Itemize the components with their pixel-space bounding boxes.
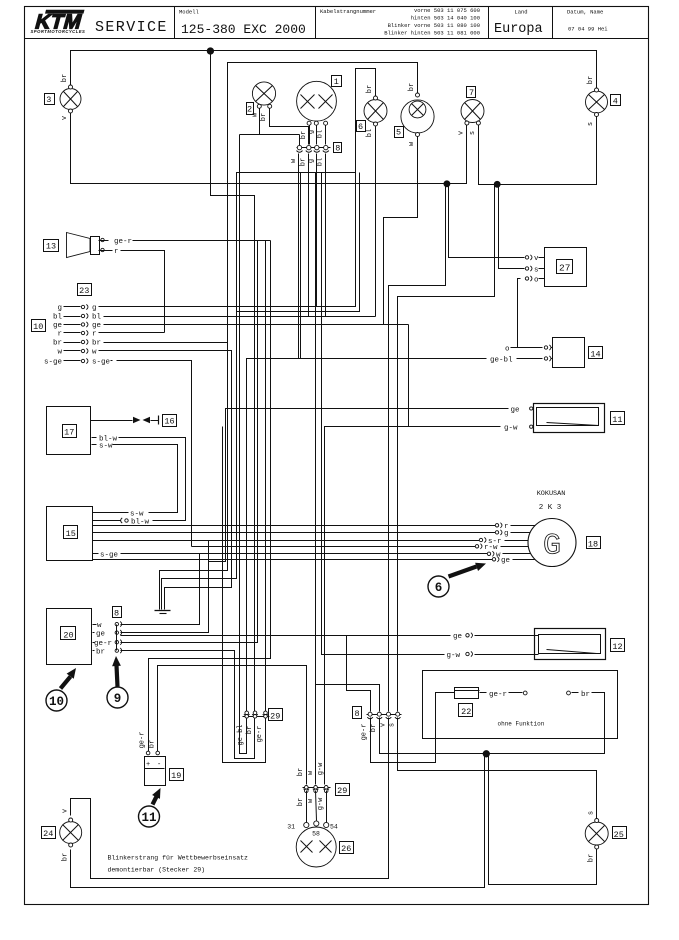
wire bl below headlight connector	[325, 154, 327, 317]
wire r: horn to connector 10 row r	[121, 251, 165, 333]
svg-text:bl: bl	[317, 158, 325, 166]
wire s-w: unit 17 to unit 15	[113, 445, 178, 513]
wire br: lamp E5 via ground	[160, 63, 418, 610]
lamp E26 tail brake light	[296, 821, 336, 867]
lamp E6 box 6	[357, 121, 366, 132]
generator box 18	[587, 537, 601, 549]
unit 27 box label	[557, 260, 573, 274]
svg-text:ge-r: ge-r	[489, 691, 507, 699]
svg-text:29: 29	[270, 712, 280, 722]
svg-text:ge-bl: ge-bl	[237, 724, 245, 745]
svg-text:s-w: s-w	[130, 510, 144, 518]
svg-text:v: v	[534, 255, 539, 263]
header table	[25, 7, 649, 39]
svg-text:br: br	[53, 340, 62, 348]
svg-text:ge-r: ge-r	[94, 640, 112, 648]
svg-text:4: 4	[613, 97, 618, 107]
horn box 13	[44, 240, 59, 252]
svg-text:13: 13	[46, 242, 56, 252]
svg-text:w: w	[92, 349, 97, 357]
svg-text:br: br	[366, 85, 374, 93]
generator G KOKUSAN	[528, 519, 576, 567]
wire br cross link	[162, 173, 356, 610]
wire g-w drop to switch 12	[322, 173, 445, 655]
svg-text:r: r	[114, 248, 119, 256]
wire br: connector 10 row br	[111, 342, 228, 344]
wire br: connector 8 down to box 22	[380, 693, 605, 754]
wire g below headlight connector	[316, 154, 318, 307]
svg-text:31: 31	[287, 824, 295, 831]
wire ge: switch 11 feed	[209, 409, 509, 562]
wire br drop to connector 29 left pin br	[211, 51, 255, 712]
svg-text:Modell: Modell	[179, 9, 199, 16]
wire ge: switch 20 row ge	[121, 541, 209, 633]
wire br: connector 8 up	[316, 685, 380, 712]
wire ge-r fuse	[480, 691, 528, 699]
switch 11 inner box	[537, 408, 599, 426]
wire r: connector 10 row r	[111, 332, 165, 334]
svg-text:8: 8	[114, 609, 119, 619]
unit 15 box label	[64, 526, 78, 539]
circled 6 callout	[428, 563, 486, 597]
svg-text:10: 10	[33, 322, 43, 332]
circled 11 callout	[139, 788, 161, 827]
svg-text:1: 1	[334, 77, 339, 87]
circled 9 callout	[107, 656, 128, 708]
switch 20 pin br	[93, 648, 122, 656]
svg-text:+: +	[146, 761, 150, 769]
wire v: node A to unit 27 pin v	[449, 184, 525, 258]
switch 12 lever	[547, 650, 597, 654]
wire o: unit 27 to unit 14	[518, 279, 543, 348]
lamp E7 indicator	[461, 100, 484, 126]
switch 11 pin ge	[511, 406, 533, 414]
wire bl: connector 10 row bl	[111, 316, 376, 318]
connector 29 box 29 rear	[336, 784, 350, 796]
svg-text:Europa: Europa	[494, 22, 543, 37]
lamp E1 box 1	[332, 76, 342, 87]
generator pin s-r	[479, 537, 528, 545]
unit 27 pin v	[525, 255, 544, 263]
node A (v)	[444, 181, 450, 187]
svg-text:g-w: g-w	[317, 797, 325, 810]
connector 29 box 29 front	[269, 709, 283, 721]
switch 12 pin g-w	[447, 651, 539, 659]
wire s: lamp E4 to node B	[498, 117, 597, 185]
horn pin ge-r	[99, 238, 109, 241]
svg-text:v: v	[61, 116, 69, 120]
switch 12 pin ge	[453, 633, 539, 641]
svg-text:o: o	[505, 345, 510, 353]
connector 29 pins front	[243, 711, 270, 718]
wire ge drop x408	[408, 325, 410, 427]
wire s-ge: connector 10 to unit 15	[117, 361, 192, 547]
svg-text:24: 24	[43, 829, 53, 839]
unit 14 box	[553, 338, 585, 368]
svg-text:8: 8	[354, 709, 359, 719]
svg-text:br: br	[587, 76, 595, 84]
svg-text:ge: ge	[96, 630, 105, 638]
svg-text:g-w: g-w	[447, 652, 461, 660]
svg-text:Datum, Name: Datum, Name	[567, 9, 603, 16]
svg-text:54: 54	[330, 824, 338, 831]
svg-text:br: br	[408, 83, 416, 91]
wire g: lamp E1 pin	[316, 125, 318, 145]
svg-text:ge: ge	[453, 633, 462, 641]
wire w to headlight connector	[299, 135, 301, 147]
label s-ge unit 15	[93, 552, 119, 560]
svg-text:18: 18	[588, 540, 598, 550]
svg-text:w: w	[57, 349, 62, 357]
lamp E24 box 24	[42, 827, 56, 839]
wire ge-bl: unit 14 to connector 29 pin ge-bl	[517, 358, 543, 360]
wire br: lamp E24 to node br rear	[71, 754, 485, 888]
wire bl-w: unit 17 to unit 15	[119, 438, 186, 521]
svg-text:bl: bl	[92, 314, 102, 322]
svg-text:15: 15	[66, 529, 76, 539]
spark plug 16 lead	[91, 416, 159, 425]
wire br: lamp E2 to headlight connector	[270, 109, 309, 145]
svg-text:58: 58	[312, 831, 320, 838]
svg-text:s: s	[534, 266, 539, 274]
wire r-w: generator row r-w	[192, 546, 477, 548]
wire br: lamp E6 down	[271, 69, 376, 307]
svg-text:Blinker hinten 503 11 081 000: Blinker hinten 503 11 081 000	[384, 30, 480, 37]
lamp E5 tail light	[401, 93, 434, 137]
box 22 outline	[423, 671, 618, 739]
wire w: long drop to rear connector 29	[315, 173, 317, 785]
headlight connector 8 pins	[297, 145, 331, 152]
wire ge-r: connector 8 down to fuse	[371, 693, 455, 763]
wire bl: lamp E1 pin	[325, 125, 327, 145]
svg-text:20: 20	[63, 631, 73, 641]
circled 10 callout	[46, 668, 76, 711]
battery 19	[145, 751, 166, 785]
wire w: generator row w	[121, 553, 489, 555]
wire ge: generator row ge	[93, 559, 495, 561]
wire ge-r: switch 20 up to horn row	[121, 241, 258, 643]
svg-text:2: 2	[247, 105, 252, 115]
svg-text:o: o	[534, 276, 539, 284]
svg-text:g: g	[307, 130, 315, 134]
svg-text:22: 22	[461, 707, 471, 717]
unit 17 box label	[63, 425, 77, 438]
svg-text:29: 29	[337, 786, 347, 796]
switch 20 box	[47, 609, 92, 665]
wire w: lamp E5 tail	[384, 135, 418, 325]
svg-text:g: g	[92, 305, 97, 313]
svg-text:s: s	[469, 131, 477, 135]
svg-text:s-w: s-w	[99, 442, 113, 450]
lamp E24 front indicator	[60, 818, 82, 847]
unit 15 box	[47, 507, 93, 561]
generator pin w	[487, 551, 530, 559]
svg-text:r: r	[92, 331, 97, 339]
node B (s)	[494, 181, 500, 187]
lamp E25 rear indicator	[585, 819, 608, 850]
svg-text:br: br	[92, 340, 101, 348]
wire br: battery minus to tail lamp ground	[158, 666, 307, 785]
wire br below headlight connector	[308, 154, 310, 317]
svg-text:w: w	[97, 622, 102, 630]
svg-text:br: br	[370, 724, 378, 732]
lamp E1 headlight	[297, 81, 337, 125]
wire s-w stub unit 15	[93, 512, 129, 514]
svg-text:g-w: g-w	[504, 425, 518, 433]
svg-text:br: br	[297, 768, 305, 776]
label bl-w unit 15	[121, 518, 150, 526]
svg-text:ge-r: ge-r	[256, 726, 264, 743]
svg-text:br: br	[260, 113, 268, 121]
svg-text:8: 8	[335, 144, 340, 154]
svg-text:23: 23	[79, 286, 89, 296]
svg-text:ge: ge	[511, 406, 520, 414]
fuse 22	[455, 688, 480, 699]
svg-text:12: 12	[612, 642, 622, 652]
svg-text:KOKUSAN: KOKUSAN	[537, 490, 566, 498]
svg-text:r: r	[57, 331, 62, 339]
wire ge-r: battery feed	[149, 241, 271, 752]
wire w drop to rear	[240, 135, 247, 754]
svg-text:br: br	[246, 726, 254, 734]
wire v: lamp E7 v-pin to node A	[447, 125, 467, 184]
wire s: node B down to connector 8 pin s	[398, 185, 495, 712]
wire ge-r: horn row	[133, 240, 271, 242]
wire w to lamp 26 pin 58	[316, 791, 317, 821]
lamp E26 box 26	[340, 842, 354, 854]
wire w: switch 20 row w	[121, 554, 200, 625]
lamp E2 box 2	[247, 103, 254, 115]
wire br: lamp E1 pin	[309, 125, 311, 145]
horn pin r	[99, 248, 113, 251]
spark plug box 16	[163, 415, 177, 427]
connector 29 pins rear	[303, 786, 331, 793]
switch 12 inner box	[539, 635, 601, 654]
switch 20 pin w	[93, 622, 122, 630]
switch 20 pin ge	[93, 630, 122, 638]
svg-text:27: 27	[559, 263, 570, 274]
switch 11 lever	[547, 423, 599, 426]
svg-text:ge: ge	[92, 322, 101, 330]
svg-text:ge-r: ge-r	[139, 732, 147, 749]
wire br top bus: lamp E3 to lamp E4	[71, 51, 597, 89]
ground	[155, 611, 171, 614]
wire ge-r: connector 29 pin ge-r loop	[223, 427, 266, 763]
svg-text:v: v	[62, 809, 70, 813]
wire s: node B to unit 27 pin s	[499, 185, 525, 269]
lamp E6 indicator	[364, 96, 387, 126]
svg-text:ge: ge	[53, 322, 62, 330]
svg-text:Blinker vorne 503 11 080 100: Blinker vorne 503 11 080 100	[388, 22, 480, 29]
svg-text:11: 11	[612, 415, 622, 425]
svg-text:br: br	[588, 854, 596, 862]
svg-text:5: 5	[396, 128, 401, 138]
svg-text:br: br	[61, 74, 69, 82]
svg-text:SPORTMOTORCYCLES: SPORTMOTORCYCLES	[31, 29, 86, 34]
switch 12 box label	[611, 639, 625, 652]
svg-text:11: 11	[141, 811, 156, 825]
svg-text:br: br	[149, 740, 157, 748]
svg-text:7: 7	[469, 88, 474, 98]
wire w below headlight connector	[298, 154, 300, 359]
unit 27 box	[545, 248, 587, 287]
switch 11 box label	[611, 412, 625, 425]
unit 14 box label	[589, 347, 603, 359]
svg-text:Land: Land	[514, 9, 527, 16]
svg-text:6: 6	[358, 122, 363, 132]
connector 8 box 8	[353, 707, 362, 719]
svg-text:s: s	[588, 811, 596, 815]
switch 11 outer box	[534, 404, 605, 433]
wire ge-r: connector 8 up to unit 12 feed	[347, 636, 371, 712]
svg-text:br: br	[297, 798, 305, 806]
svg-text:br: br	[62, 853, 70, 861]
svg-text:14: 14	[590, 350, 600, 360]
svg-text:ge-r: ge-r	[361, 724, 369, 741]
svg-text:g-w: g-w	[317, 762, 325, 775]
svg-text:ge-bl: ge-bl	[490, 356, 513, 364]
KTM logo	[33, 11, 85, 34]
wire br box 22	[567, 691, 605, 699]
svg-text:s: s	[389, 723, 397, 727]
svg-text:3: 3	[46, 95, 51, 105]
horn 13	[67, 233, 100, 258]
wire s: connector 8 down to lamp E25	[398, 718, 597, 819]
wire br to lamp 26 pin 31	[306, 791, 308, 823]
wire br second drop	[237, 173, 360, 312]
unit 14 pin ge-bl	[490, 356, 553, 364]
svg-text:19: 19	[171, 771, 181, 781]
svg-text:bl: bl	[53, 314, 63, 322]
svg-text:br: br	[96, 648, 105, 656]
wire v: node A down to connector 8 pin v	[389, 184, 446, 712]
wire g-w to lamp 26 pin 54	[326, 791, 328, 823]
svg-text:bl-w: bl-w	[131, 518, 150, 526]
unit 27 pin o	[525, 276, 544, 284]
connector 10 seven pole	[44, 304, 113, 366]
svg-text:bl: bl	[366, 129, 374, 137]
fuse box label 22	[459, 704, 473, 717]
lamp E4 box 4	[611, 95, 621, 106]
switch 11 pin g-w	[504, 425, 533, 433]
battery box 19	[170, 769, 184, 781]
wire v: lamp E3 bottom to node A	[71, 113, 447, 184]
connector 8 pins	[367, 712, 402, 719]
lamp E2 parking light	[252, 82, 275, 108]
svg-text:vorne 503 11 075 600: vorne 503 11 075 600	[414, 7, 480, 14]
svg-text:s-ge: s-ge	[92, 359, 110, 367]
svg-text:25: 25	[614, 830, 624, 840]
generator pin r-w	[475, 544, 528, 552]
lamp E3 position light	[60, 85, 81, 113]
svg-text:demontierbar (Stecker 29): demontierbar (Stecker 29)	[108, 867, 206, 874]
svg-text:s-ge: s-ge	[44, 359, 62, 367]
node br junction	[207, 48, 213, 54]
wire v: connector 8 down to lamp E24	[71, 718, 389, 879]
generator pin ge	[492, 557, 534, 565]
svg-text:v: v	[380, 723, 388, 727]
wire w: connector 10 row w to ground drop	[111, 351, 232, 610]
svg-text:SERVICE: SERVICE	[95, 19, 168, 36]
wire ge-r: connector 29 pin up to horn row	[265, 241, 267, 712]
switch 20 pin ge-r	[93, 640, 122, 648]
lamp E7 box 7	[467, 87, 476, 98]
lamp E4 position light	[586, 88, 608, 117]
wire ge: connector 10 row ge	[111, 324, 409, 326]
wire r: generator row r	[93, 525, 497, 527]
switch 20 connector box 8	[113, 607, 122, 618]
generator pin g	[495, 530, 530, 538]
svg-text:07 04 99 Hei: 07 04 99 Hei	[568, 26, 608, 33]
svg-text:bl: bl	[317, 130, 325, 138]
svg-text:hinten 503 14 040 100: hinten 503 14 040 100	[411, 15, 480, 22]
wire ge: switch 20 to switch 12	[121, 635, 451, 637]
wire bl-w stub unit 15	[93, 520, 121, 522]
svg-text:s-ge: s-ge	[100, 552, 118, 560]
svg-text:ge: ge	[501, 557, 510, 565]
wire g: generator row g	[93, 532, 497, 534]
headlight connector box 8	[334, 143, 342, 153]
svg-text:br: br	[581, 691, 590, 699]
lamp E25 box 25	[613, 827, 627, 839]
svg-text:2 K 3: 2 K 3	[539, 504, 562, 512]
svg-text:125-380 EXC 2000: 125-380 EXC 2000	[181, 22, 306, 37]
svg-text:9: 9	[114, 692, 122, 706]
connector 10 box 10	[32, 320, 46, 332]
wire s: lamp E7 s-pin to node B	[479, 125, 498, 185]
svg-text:26: 26	[341, 844, 351, 854]
svg-text:g: g	[504, 530, 509, 538]
switch 20 connector bus	[116, 625, 118, 651]
svg-text:g: g	[57, 305, 62, 313]
unit 14 pin o	[505, 345, 553, 353]
lamp E5 box 5	[395, 127, 404, 138]
wire g: connector 10 row g	[111, 306, 317, 308]
svg-text:br: br	[299, 158, 307, 166]
connector 23 box 23	[78, 284, 92, 296]
node br rear	[483, 751, 489, 757]
wire bl: lamp E6 down to connector 10 row bl	[375, 127, 377, 317]
svg-text:10: 10	[49, 695, 64, 709]
svg-text:Kabelstrangnummer: Kabelstrangnummer	[320, 8, 376, 15]
svg-text:-: -	[157, 761, 161, 769]
switch 20 box label	[61, 627, 76, 640]
switch 12 outer box	[535, 629, 606, 660]
unit 27 pin s	[525, 266, 544, 274]
svg-text:17: 17	[64, 428, 74, 438]
wire w horizontal	[240, 134, 300, 136]
unit 17 box	[47, 407, 91, 455]
wire br: switch 20 row br to connector 29 pin br	[121, 651, 255, 759]
wire br: lamp E25 to node br rear	[489, 754, 597, 885]
svg-text:s: s	[587, 122, 595, 126]
svg-text:G: G	[543, 530, 561, 564]
svg-text:16: 16	[164, 417, 174, 427]
svg-text:ge-r: ge-r	[114, 238, 132, 246]
svg-text:v: v	[458, 131, 466, 135]
svg-text:6: 6	[435, 581, 443, 595]
svg-text:Blinkerstrang für Wettbewerbse: Blinkerstrang für Wettbewerbseinsatz	[108, 855, 249, 862]
svg-text:ohne Funktion: ohne Funktion	[498, 721, 545, 728]
wire s-r: generator row s-r	[93, 540, 481, 542]
lamp E3 box 3	[45, 94, 55, 105]
wire g-w: switch 11 to connector 29 right pin	[325, 427, 501, 785]
svg-text:g: g	[308, 159, 316, 163]
KTM logo top bar	[45, 10, 85, 14]
generator pin r	[495, 523, 535, 531]
wire w: lamp E2 pin drop	[259, 109, 261, 135]
